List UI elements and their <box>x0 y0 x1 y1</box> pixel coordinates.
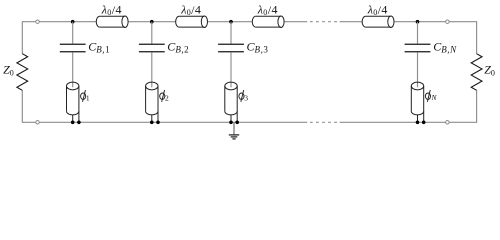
wire: left vertical upper <box>21 21 23 54</box>
ground <box>229 135 239 139</box>
capacitor C_B,2 <box>139 44 165 52</box>
wire: bottom rail dashed continuation <box>310 121 337 123</box>
svg-text:λ0/4: λ0/4 <box>257 2 278 17</box>
port P1 bottom terminal <box>36 121 40 125</box>
svg-text:N: N <box>431 93 438 102</box>
wire: top rail dashed continuation <box>310 21 337 23</box>
node 1 junction dot <box>71 20 75 24</box>
wire: top rail TL3 to dashed break <box>285 21 308 23</box>
wire: top rail dashed break to TL4 <box>340 21 362 23</box>
transmission line TL4 lambda0/4 <box>362 16 394 28</box>
node stubN inner dot <box>416 121 420 125</box>
wire: C_B2 to stub2 <box>151 52 153 87</box>
node stubN wall dot <box>422 121 426 125</box>
wire: node 1 to C_B1 <box>72 22 74 44</box>
stub phiN <box>411 82 423 122</box>
node N junction dot <box>416 20 420 24</box>
wire: right vertical upper <box>476 21 478 54</box>
label phi3 <box>239 90 244 102</box>
svg-text:2: 2 <box>165 94 169 103</box>
wire: right vertical lower <box>476 90 478 123</box>
wire: top rail between TL2 and TL3 <box>208 21 252 23</box>
stub phi1 <box>67 82 79 122</box>
wire: bottom rail right of dashed break <box>340 121 477 123</box>
svg-text:λ0/4: λ0/4 <box>101 2 122 17</box>
node stub2 inner dot <box>150 121 154 125</box>
port P2 top terminal <box>446 20 450 24</box>
wire: node 3 to C_B3 <box>230 22 232 44</box>
node 2 junction dot <box>150 20 154 24</box>
wire: C_BN to stubN <box>417 52 419 87</box>
transmission line TL2 lambda0/4 <box>176 16 208 28</box>
svg-text:λ0/4: λ0/4 <box>367 2 388 17</box>
resistor Z0 right <box>471 54 482 91</box>
port P2 bottom terminal <box>446 121 450 125</box>
node stub3 wall dot <box>235 121 239 125</box>
wire: left vertical lower <box>21 90 23 123</box>
label phiN <box>425 90 430 102</box>
capacitor C_B,3 <box>218 44 244 52</box>
node stub3 inner dot <box>229 121 233 125</box>
capacitor C_B,N <box>405 44 431 52</box>
port P1 top terminal <box>36 20 40 24</box>
transmission line TL1 lambda0/4 <box>96 16 128 28</box>
capacitor C_B,1 <box>60 44 86 52</box>
svg-text:3: 3 <box>244 94 248 103</box>
wire: ground stem <box>233 122 235 135</box>
resistor Z0 left <box>17 54 28 91</box>
transmission line TL3 lambda0/4 <box>252 16 284 28</box>
label phi2 <box>160 90 165 102</box>
wire: C_B3 to stub3 <box>230 52 232 87</box>
wire: node 2 to C_B2 <box>151 22 153 44</box>
svg-text:1: 1 <box>86 94 90 103</box>
wire: node N to C_BN <box>417 22 419 44</box>
svg-text:λ0/4: λ0/4 <box>180 2 201 17</box>
node stub1 inner dot <box>71 121 75 125</box>
label phi1 <box>81 90 86 102</box>
node stub2 wall dot <box>156 121 160 125</box>
node 3 junction dot <box>229 20 233 24</box>
node stub1 wall dot <box>77 121 81 125</box>
wire: bottom rail left of dashed break <box>22 121 307 123</box>
wire: top rail between TL1 and TL2 <box>128 21 175 23</box>
stub phi3 <box>225 82 237 122</box>
stub phi2 <box>146 82 158 122</box>
wire: top rail TL4 to right corner <box>395 21 477 23</box>
wire: C_B1 to stub1 <box>72 52 74 87</box>
wire: top rail left segment <box>22 21 96 23</box>
